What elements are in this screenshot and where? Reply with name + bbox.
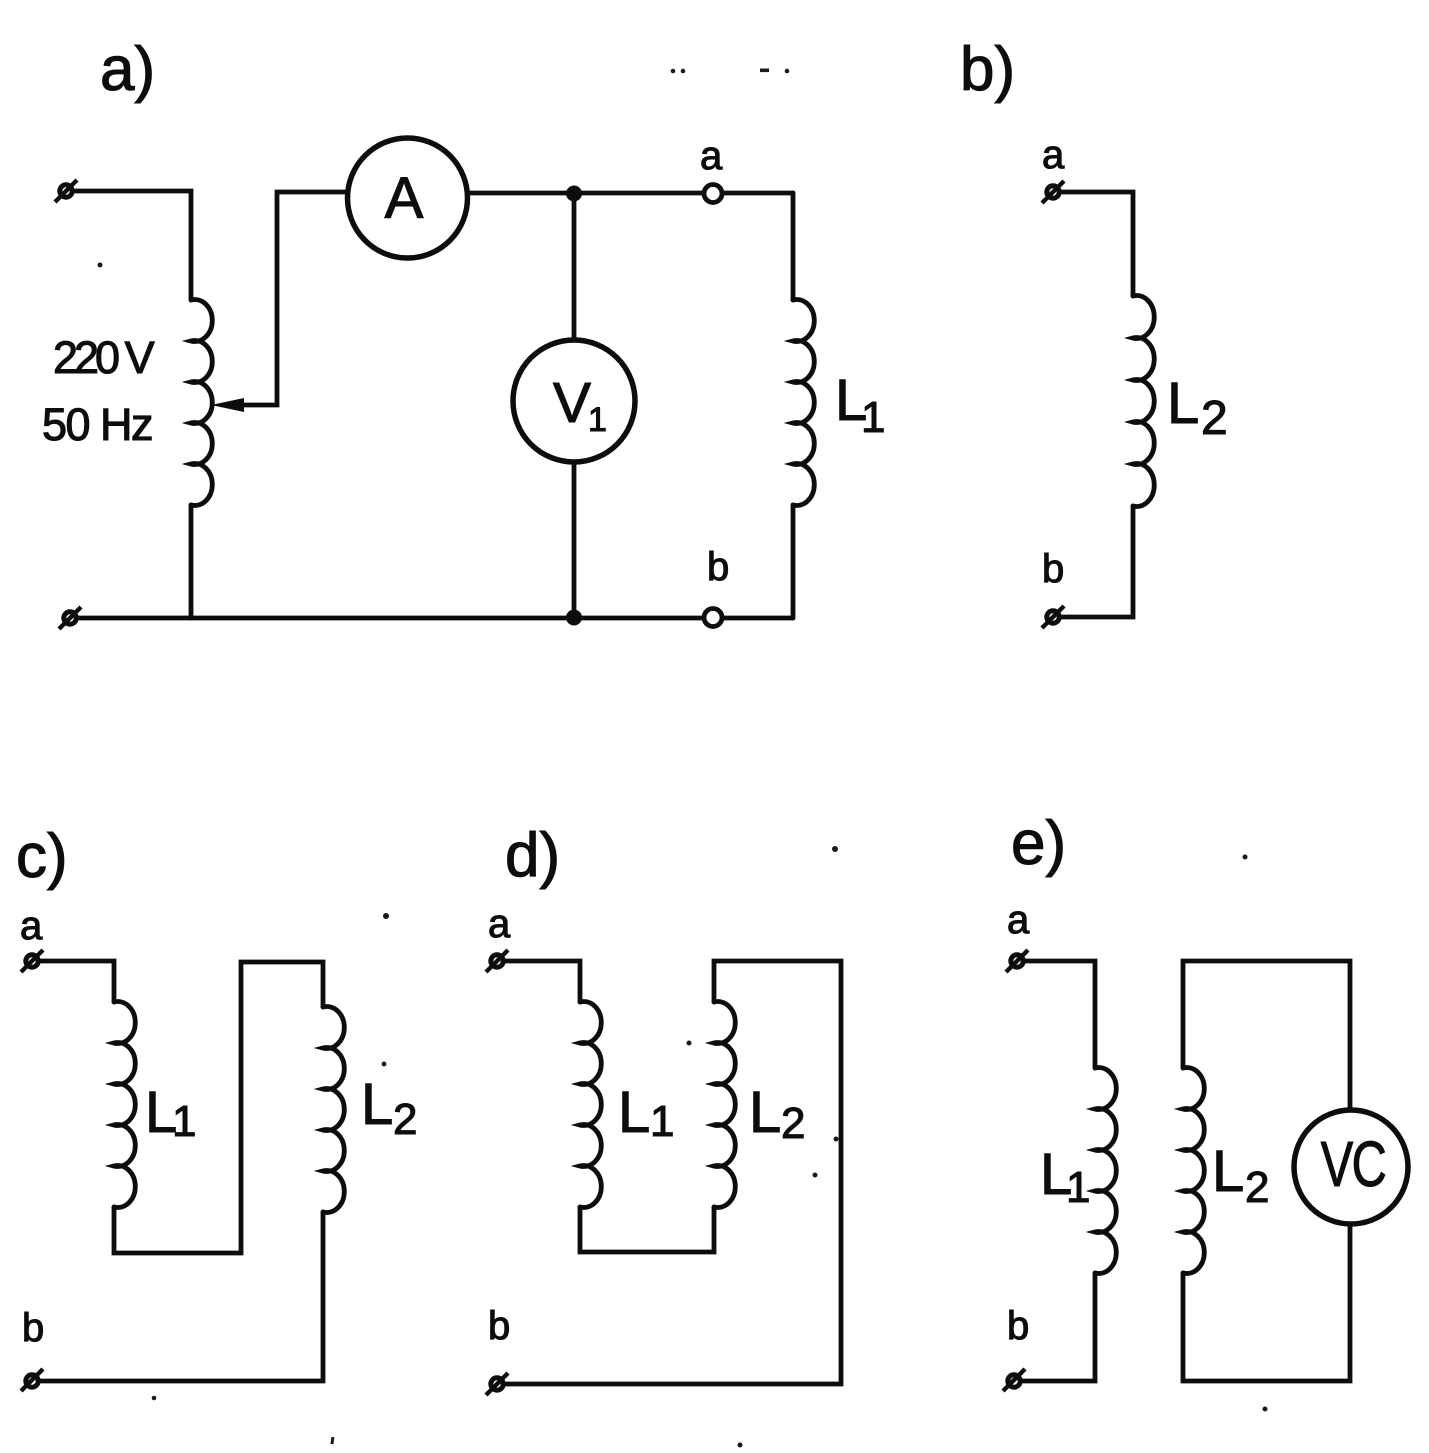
svg-text:b: b <box>488 1304 510 1348</box>
svg-text:L: L <box>1167 371 1199 436</box>
svg-text:2: 2 <box>1201 392 1228 445</box>
svg-text:2: 2 <box>393 1095 417 1144</box>
svg-text:1: 1 <box>861 393 885 442</box>
svg-text:c): c) <box>16 822 68 891</box>
svg-text:b: b <box>1007 1304 1029 1348</box>
svg-text:b): b) <box>960 35 1015 104</box>
svg-text:b: b <box>707 545 729 589</box>
svg-text:L: L <box>1212 1139 1244 1204</box>
svg-text:220 V: 220 V <box>53 332 155 383</box>
svg-text:b: b <box>22 1306 44 1350</box>
svg-text:b: b <box>1042 547 1064 591</box>
svg-text:1: 1 <box>172 1097 196 1146</box>
svg-text:1: 1 <box>650 1097 674 1146</box>
svg-text:a): a) <box>100 35 155 104</box>
svg-text:a: a <box>1042 133 1065 177</box>
svg-text:L: L <box>361 1072 393 1137</box>
svg-text:VC: VC <box>1321 1130 1386 1201</box>
svg-text:V: V <box>553 371 591 435</box>
svg-text:a: a <box>700 134 723 178</box>
svg-text:2: 2 <box>781 1099 805 1148</box>
svg-text:d): d) <box>505 821 560 890</box>
svg-text:e): e) <box>1011 809 1066 878</box>
svg-text:a: a <box>20 904 43 948</box>
svg-text:2: 2 <box>1245 1163 1269 1212</box>
svg-text:1: 1 <box>1066 1163 1090 1212</box>
svg-text:a: a <box>488 902 511 946</box>
svg-text:1: 1 <box>588 401 607 439</box>
svg-text:50 Hz: 50 Hz <box>42 399 152 450</box>
svg-text:A: A <box>385 166 424 231</box>
svg-text:a: a <box>1007 898 1030 942</box>
svg-text:L: L <box>618 1080 650 1145</box>
svg-text:L: L <box>749 1080 781 1145</box>
